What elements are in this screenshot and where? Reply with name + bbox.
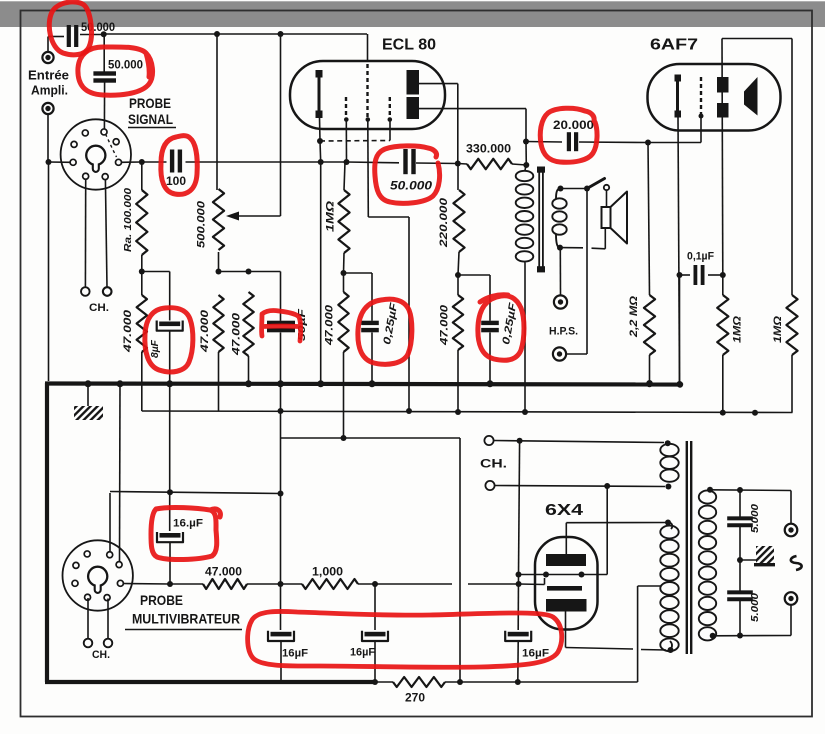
- svg-text:16µF: 16µF: [350, 647, 375, 659]
- svg-text:47.000: 47.000: [199, 309, 211, 353]
- svg-text:CH.: CH.: [480, 459, 507, 471]
- svg-text:1MΩ: 1MΩ: [772, 316, 784, 343]
- svg-text:47.000: 47.000: [205, 565, 242, 579]
- svg-text:1,000: 1,000: [312, 565, 343, 579]
- svg-text:Entrée: Entrée: [28, 68, 69, 83]
- svg-text:5.000: 5.000: [749, 504, 761, 533]
- svg-text:100: 100: [166, 174, 186, 188]
- svg-text:2,2 MΩ: 2,2 MΩ: [628, 296, 640, 339]
- svg-text:50.000: 50.000: [81, 20, 115, 34]
- svg-text:47.000: 47.000: [324, 304, 336, 346]
- svg-text:47.000: 47.000: [122, 309, 134, 353]
- svg-text:Ra. 100.000: Ra. 100.000: [122, 188, 134, 252]
- svg-text:330.000: 330.000: [466, 142, 511, 156]
- svg-text:PROBE: PROBE: [140, 592, 183, 608]
- svg-text:5.000: 5.000: [749, 593, 761, 622]
- svg-text:16µF: 16µF: [282, 648, 308, 660]
- svg-text:0,1µF: 0,1µF: [687, 251, 714, 263]
- svg-text:47.000: 47.000: [231, 312, 243, 356]
- svg-text:220.000: 220.000: [438, 197, 450, 248]
- svg-text:H.P.S.: H.P.S.: [549, 326, 578, 338]
- svg-text:50.000: 50.000: [390, 179, 432, 193]
- svg-text:16µF: 16µF: [522, 648, 549, 660]
- svg-text:6X4: 6X4: [545, 502, 583, 519]
- svg-text:CH.: CH.: [92, 649, 110, 661]
- svg-text:47.000: 47.000: [439, 304, 451, 346]
- svg-text:ECL 80: ECL 80: [382, 37, 436, 54]
- svg-text:1MΩ: 1MΩ: [732, 316, 744, 343]
- svg-text:270: 270: [405, 691, 425, 705]
- svg-text:1MΩ: 1MΩ: [325, 200, 337, 232]
- svg-text:6AF7: 6AF7: [650, 37, 698, 54]
- svg-text:16.µF: 16.µF: [173, 518, 203, 530]
- svg-text:CH.: CH.: [89, 302, 109, 314]
- svg-text:8µF: 8µF: [149, 339, 161, 358]
- svg-text:20.000: 20.000: [553, 118, 594, 132]
- svg-text:PROBE: PROBE: [129, 95, 171, 111]
- svg-text:MULTIVIBRATEUR: MULTIVIBRATEUR: [132, 611, 240, 627]
- svg-text:Ampli.: Ampli.: [31, 83, 68, 98]
- svg-text:50.000: 50.000: [108, 58, 143, 72]
- svg-text:500.000: 500.000: [196, 200, 208, 248]
- svg-text:SIGNAL: SIGNAL: [128, 111, 173, 127]
